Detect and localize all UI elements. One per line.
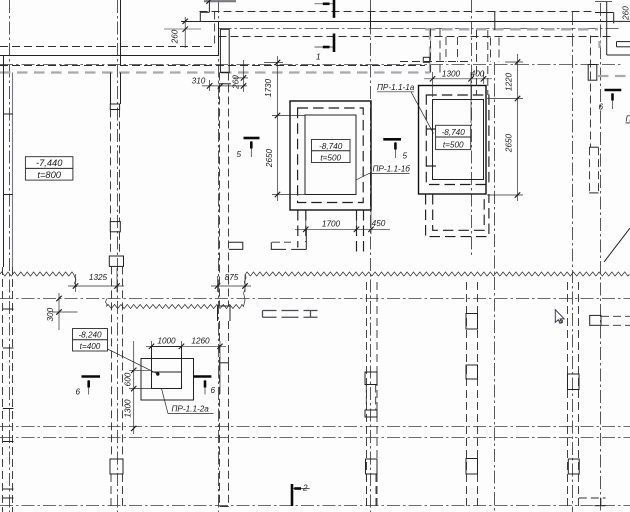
- level box -7,440: [25, 157, 73, 180]
- diagonal leader bottom right: [604, 228, 630, 262]
- svg-text:2650: 2650: [505, 133, 514, 153]
- svg-text:875: 875: [225, 273, 239, 282]
- top edge gray line y=1.5: [204, 0, 236, 2]
- small box on axis H y=315: [590, 315, 601, 325]
- top wall dashed edge y=47 left: [0, 46, 214, 48]
- axis C wall notch right y=242: [229, 242, 243, 249]
- svg-text:600: 600: [124, 372, 133, 386]
- gray duct step x=430: [429, 29, 431, 72]
- axis line A vertical x=9: [9, 0, 11, 512]
- dashed wall verticals above pit1a: [476, 30, 478, 95]
- leader PR-1.1-2a: [162, 389, 169, 414]
- pit PR-1.1-1a below dashed U inner: [433, 194, 485, 230]
- svg-text:310: 310: [192, 77, 206, 86]
- wall H segment with caps: [589, 146, 598, 148]
- top wall solid step x=218.6: [218, 22, 220, 56]
- pit PR-1.1-2a level box: [73, 329, 108, 352]
- svg-text:300: 300: [46, 307, 55, 321]
- svg-text:1300: 1300: [442, 69, 461, 78]
- section mark 2 bottom: [291, 484, 294, 506]
- pit PR-1.1-1a inner rect: [433, 100, 484, 180]
- dim ext lines pit1a right: [487, 62, 523, 195]
- break line zigzag left: [0, 272, 77, 287]
- axis C pilaster cap y=83.8: [218, 83, 231, 85]
- axis line 4 horizontal y=427: [0, 426, 630, 428]
- gray duct right y=76: [598, 75, 630, 77]
- left wall joint tick y=194.5: [4, 194, 13, 196]
- top wall dashed inner y=37 right: [219, 36, 613, 38]
- dim ext verticals 1300-400: [433, 72, 484, 123]
- dim ext line 300: [52, 311, 78, 313]
- mouse cursor: [555, 310, 564, 324]
- svg-text:t=500: t=500: [443, 140, 464, 149]
- bottom right opening: [579, 497, 606, 499]
- pit PR-1.1-1b below dashed walls right: [356, 210, 358, 252]
- svg-text:ПР: ПР: [626, 115, 630, 124]
- dim 260 #1 line: [184, 17, 186, 48]
- axis B wall dashed below zigzag: [111, 266, 113, 459]
- wall inner dashed y=62 near pit: [400, 61, 470, 63]
- dim line 1000-1260: [146, 345, 226, 347]
- dim ticks 1000-1260: [149, 344, 223, 349]
- dim ticks pit1b: [275, 60, 280, 197]
- wall E column bottom: [466, 459, 478, 475]
- axis line F vertical x=494: [494, 62, 496, 512]
- dashes right from small box: [601, 315, 630, 317]
- svg-text:1000: 1000: [157, 336, 176, 345]
- axis B wall notch rect y=104: [110, 104, 119, 110]
- section mark 1 upper: [333, 0, 336, 18]
- pit PR-1.1-2a mid line: [152, 371, 182, 373]
- top wall solid edge y=23 right: [181, 21, 612, 23]
- left wall face x=3.6: [3, 56, 5, 268]
- dim ext verticals 1000-1260: [152, 341, 221, 394]
- svg-text:1260: 1260: [191, 336, 210, 345]
- dim line 1325: [68, 285, 124, 287]
- dim line 1300-400: [424, 78, 492, 80]
- pit PR-1.1-1b below step corners solid: [271, 242, 286, 249]
- top wall gray duct y=72.5: [0, 71, 430, 73]
- dim ext verticals 1325: [76, 268, 118, 292]
- dim ticks 875: [215, 283, 248, 288]
- axis line H vertical x=600: [600, 3, 602, 512]
- axis G wall dashed pair bottom half: [567, 282, 569, 506]
- svg-text:ПР-1.1-2а: ПР-1.1-2а: [172, 405, 210, 414]
- svg-text:1700: 1700: [322, 220, 341, 229]
- dim ticks 1700-450: [303, 227, 374, 232]
- top right dim line 260: [595, 1, 612, 3]
- wall H dashed vertical top: [590, 36, 592, 148]
- left wall joint tick y=114: [4, 113, 13, 115]
- dim line 600-1300 vertical: [133, 341, 135, 434]
- pit PR-1.1-1b level box: [312, 140, 351, 163]
- axis D column bottom: [366, 459, 378, 474]
- dim line 875: [211, 285, 251, 287]
- axis line 5 horizontal y=437: [0, 437, 630, 439]
- top right wall corner: [606, 2, 608, 56]
- svg-text:5: 5: [403, 152, 408, 161]
- svg-text:260: 260: [622, 6, 630, 21]
- pit PR-1.1-1a notch dashes: [426, 128, 436, 130]
- pit PR-1.1-1b outer rect: [290, 101, 371, 210]
- pilaster dashed below band x=446-457.5: [445, 37, 447, 62]
- axis line 2 horizontal y=28.5 right part: [219, 28, 622, 30]
- pit PR-1.1-1a outer rect: [419, 86, 487, 195]
- axis line 3 horizontal y=298.5: [0, 298, 630, 300]
- axis line C vertical x=218.6: [218, 0, 220, 512]
- axis B wall solid faces top: [110, 73, 112, 105]
- dim line 1700-450: [295, 228, 390, 230]
- small step corner x=200-209 top: [200, 11, 209, 13]
- pit PR-1.1-1b below dashed walls left: [297, 210, 299, 248]
- axis B wall dashed to column: [110, 232, 112, 256]
- axis B wall notch rect y=221.6: [110, 222, 120, 232]
- svg-text:t=800: t=800: [37, 170, 61, 180]
- dim ext lines pit1b: [264, 63, 305, 195]
- pit PR-1.1-1a dashed ring: [426, 95, 489, 185]
- svg-text:6: 6: [599, 103, 604, 112]
- section mark 5 left: [244, 137, 260, 140]
- dim ext verticals 1700-450: [306, 210, 371, 234]
- pit PR-1.1-2a inner rect: [152, 347, 182, 389]
- svg-text:ПР-1.1-1а: ПР-1.1-1а: [377, 83, 415, 92]
- svg-text:260: 260: [232, 75, 241, 90]
- svg-text:1300: 1300: [124, 399, 133, 418]
- axis B column rect y=256: [109, 256, 123, 266]
- step dashed verticals x=430/440: [430, 29, 432, 73]
- svg-text:400: 400: [471, 69, 485, 78]
- left wall dashed below x=12.8: [12, 267, 14, 512]
- svg-text:-8,740: -8,740: [442, 128, 466, 137]
- top wall dashed step x=214.6: [214, 12, 216, 48]
- axis B wall dashed mid: [110, 110, 112, 222]
- axis D column mid: [365, 372, 377, 385]
- axis G column mid: [568, 374, 580, 390]
- pit PR-1.1-1b dashed ring: [298, 108, 364, 203]
- break line zigzag right: [244, 272, 629, 287]
- section mark 6 top right: [605, 89, 622, 92]
- svg-text:1220: 1220: [505, 72, 514, 91]
- top right inner corner: [595, 12, 614, 14]
- dim ticks pit1a right: [515, 59, 520, 197]
- svg-text:260: 260: [171, 29, 180, 44]
- wall E column top: [466, 314, 478, 330]
- top wall gray duct y=39.5 right: [425, 28, 598, 30]
- wall H notch rect: [588, 65, 597, 81]
- dim line pit1b left vertical: [277, 56, 279, 201]
- dim ext lines 600-1300: [129, 370, 152, 388]
- svg-text:ПР-1.1-1б: ПР-1.1-1б: [373, 165, 411, 174]
- wall E dashed verticals: [466, 282, 468, 507]
- pit PR-1.1-1b inner rect: [305, 115, 356, 195]
- axis D wall dashed pair bottom half: [366, 282, 368, 507]
- leader PR-1.1-1b: [356, 173, 369, 180]
- left wall joint ticks lower: [3, 309, 14, 498]
- left wall dashed below x=2.8: [2, 267, 4, 512]
- svg-text:-8,240: -8,240: [78, 331, 102, 340]
- top wall solid edge y=56 left: [0, 55, 219, 57]
- axis line 6 horizontal y=505.5: [0, 505, 630, 507]
- dim line pit1a right vertical: [517, 54, 519, 201]
- duct opening dashes mid right: [263, 311, 318, 318]
- axis C pilaster rect below band: [220, 29, 229, 72]
- leader with dot pit2a: [108, 349, 158, 374]
- axis C column rect y=306: [218, 306, 231, 321]
- dashed pair x=490.5/499 below band: [490, 38, 492, 63]
- dim line 300 vertical: [58, 293, 60, 330]
- axis C tall wall segment with caps: [220, 362, 229, 364]
- svg-text:1: 1: [316, 53, 321, 62]
- svg-text:-7,440: -7,440: [36, 158, 63, 168]
- axis line G vertical x=572.5: [572, 12, 574, 512]
- left wall face x=12.8: [12, 73, 14, 268]
- axis B bottom column: [110, 459, 123, 474]
- partial label box right edge: [617, 46, 630, 48]
- dim 260 #2 line: [243, 60, 245, 92]
- dim ticks 1300-400: [430, 76, 486, 81]
- pit PR-1.1-2a outer rect: [141, 359, 194, 401]
- svg-text:6: 6: [76, 388, 81, 397]
- svg-text:5: 5: [237, 150, 242, 159]
- svg-text:t=500: t=500: [320, 153, 341, 162]
- pit PR-1.1-1a below dashed U outer: [426, 194, 489, 237]
- section mark 1 lower: [333, 34, 336, 53]
- axis line B vertical x=117: [117, 0, 119, 512]
- dim 260 #2 ticks: [241, 75, 246, 88]
- svg-text:-8,740: -8,740: [319, 142, 343, 151]
- dim ticks 300: [56, 296, 61, 315]
- section mark 6 left of pit2a: [82, 375, 101, 378]
- dim ticks 600-1300: [131, 368, 136, 432]
- svg-text:2: 2: [302, 484, 308, 493]
- hidden wall dashed y=65.8: [0, 65, 425, 67]
- svg-text:2650: 2650: [265, 148, 274, 168]
- axis C wall dashed mid: [219, 73, 221, 307]
- dim ticks 1325: [73, 283, 120, 288]
- axis B top solid vertical: [120, 0, 122, 66]
- small block on wall face: [423, 57, 429, 62]
- axis C wall dashed below: [219, 321, 221, 363]
- axis D solid segment through band: [370, 12, 372, 28]
- axis line D vertical x=370: [370, 0, 372, 512]
- top wall dashed edge y=11.5 right: [200, 11, 596, 13]
- dim 310 line: [202, 85, 247, 87]
- svg-text:t=400: t=400: [80, 342, 101, 351]
- dim 260 #1 ticks: [183, 19, 188, 32]
- section mark 6 right of pit2a: [193, 375, 211, 378]
- svg-text:450: 450: [372, 219, 386, 228]
- svg-text:6: 6: [211, 386, 216, 395]
- svg-text:1325: 1325: [89, 273, 108, 282]
- dim 310 ticks: [207, 83, 223, 88]
- axis line E vertical x=471.5 top part: [471, 0, 473, 255]
- axis line 1 horizontal y=64.3: [0, 64, 621, 66]
- break line zigzag middle: [106, 289, 246, 309]
- leader PR-1.1-1a: [411, 92, 434, 134]
- dim ext verticals 875: [218, 275, 246, 293]
- wall E column mid: [466, 365, 478, 379]
- section mark 5 right: [383, 138, 401, 141]
- pit PR-1.1-1a level box: [436, 125, 471, 149]
- axis G column bottom: [568, 459, 579, 474]
- svg-text:1730: 1730: [264, 78, 273, 97]
- short solid vertical x=494.8 top band: [494, 12, 496, 31]
